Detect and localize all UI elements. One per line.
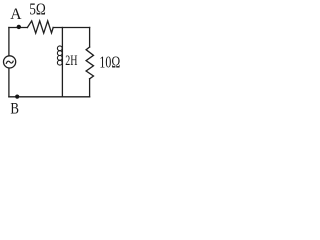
wire inductor branch bbox=[61, 28, 63, 97]
wire right branch upper bbox=[89, 28, 91, 48]
source V1 circle bbox=[4, 56, 16, 68]
resistor R2 10ohm zigzag bbox=[86, 47, 93, 79]
node A junction dot bbox=[17, 25, 21, 29]
wire left rail upper bbox=[8, 28, 10, 56]
svg-text:5Ω: 5Ω bbox=[29, 0, 46, 19]
resistor R1 5ohm zigzag bbox=[27, 21, 53, 33]
wire bottom bbox=[9, 96, 90, 98]
svg-text:2H: 2H bbox=[65, 53, 77, 69]
wire top-left segment bbox=[9, 27, 28, 29]
node B junction dot bbox=[15, 95, 19, 99]
wire top-right segment bbox=[53, 27, 89, 29]
svg-text:10Ω: 10Ω bbox=[99, 52, 120, 71]
source V1 sine symbol bbox=[6, 61, 13, 63]
svg-text:A: A bbox=[10, 6, 22, 23]
wire right branch lower bbox=[89, 79, 91, 97]
svg-text:B: B bbox=[10, 101, 19, 118]
inductor L1 2H loops bbox=[57, 46, 62, 51]
wire left rail lower bbox=[8, 68, 10, 97]
